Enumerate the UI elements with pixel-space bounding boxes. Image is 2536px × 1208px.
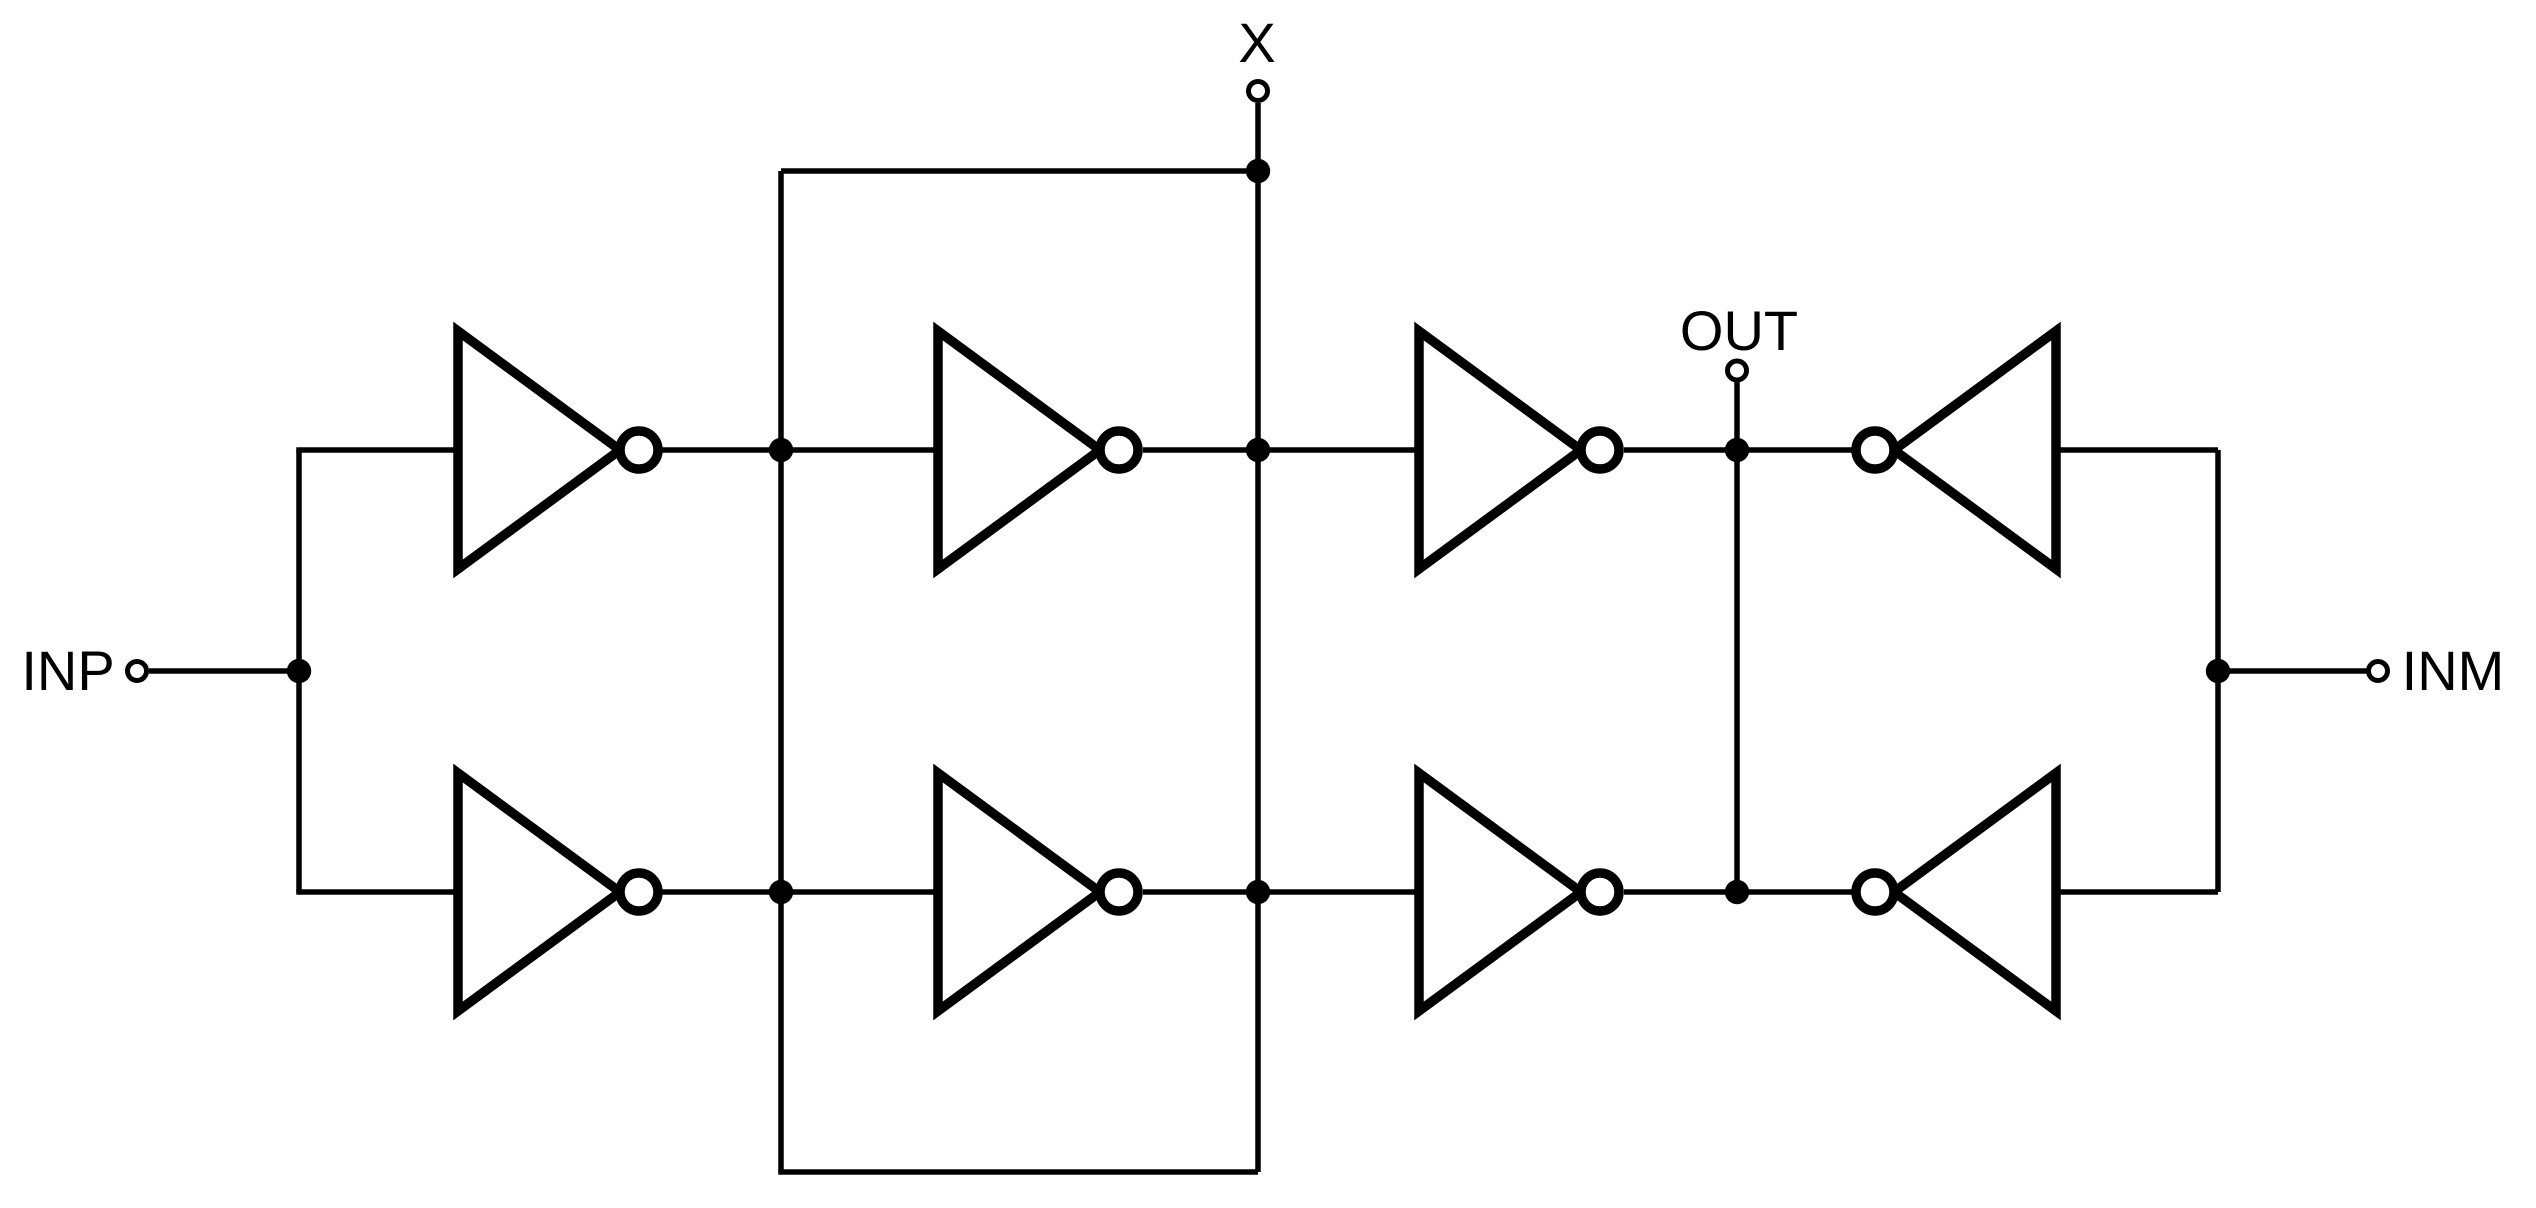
- wire feedback box left vertical: [778, 171, 784, 1172]
- svg-text:OUT: OUT: [1680, 299, 1798, 362]
- inverter U3: [938, 331, 1138, 569]
- wire node X top to inverter U5 input: [1258, 447, 1421, 453]
- wire net X vertical: [1255, 103, 1261, 1172]
- wire node OUT top to U7 bubble: [1737, 447, 1852, 453]
- wire U8 input to right branch: [2054, 889, 2218, 895]
- junction X row top: [1246, 438, 1270, 462]
- terminal INM: [2369, 662, 2388, 681]
- wire U5 output to node OUT top: [1624, 447, 1737, 453]
- inverter U7: [1856, 331, 2056, 569]
- inverter U2: [458, 773, 658, 1011]
- wire U6 output to node OUT bottom: [1624, 889, 1737, 895]
- wire feedback box top horizontal: [781, 168, 1258, 174]
- wire box left bottom to inverter U4 input: [781, 889, 940, 895]
- inverter U4: [938, 773, 1138, 1011]
- wire INP to left branch junction: [149, 668, 299, 674]
- junction OUT row top: [1725, 438, 1749, 462]
- wire U7 input to right branch: [2054, 447, 2218, 453]
- junction X row bottom: [1246, 880, 1270, 904]
- junction X top: [1246, 159, 1270, 183]
- wire right input branch vertical: [2215, 450, 2221, 892]
- wire left input branch vertical: [296, 450, 302, 892]
- inverter U5: [1419, 331, 1619, 569]
- wire left branch top to inverter U1 input: [296, 447, 460, 453]
- wire left branch bottom to inverter U2 input: [296, 889, 460, 895]
- terminal X: [1249, 82, 1268, 101]
- inverter U1: [458, 331, 658, 569]
- inverter U6: [1419, 773, 1619, 1011]
- svg-text:X: X: [1238, 11, 1275, 74]
- junction OUT row bottom: [1725, 880, 1749, 904]
- svg-text:INP: INP: [21, 639, 114, 702]
- wire U2 output to node box left bottom: [661, 889, 781, 895]
- inverter U8: [1856, 773, 2056, 1011]
- wire U1 output to node box left top: [661, 447, 781, 453]
- wire box left top to inverter U3 input: [781, 447, 940, 453]
- svg-text:INM: INM: [2402, 639, 2505, 702]
- wire node X bottom to inverter U6 input: [1258, 889, 1421, 895]
- junction U2 output / box left bottom: [769, 880, 793, 904]
- junction INM branch: [2206, 659, 2230, 683]
- wire net OUT vertical: [1734, 382, 1740, 892]
- terminal OUT: [1728, 361, 1747, 380]
- junction U1 output / box left top: [769, 438, 793, 462]
- terminal INP: [128, 662, 147, 681]
- wire right branch junction to INM terminal: [2218, 668, 2367, 674]
- wire U3 output to node X top: [1143, 447, 1258, 453]
- wire U4 output to node X bottom: [1143, 889, 1258, 895]
- wire node OUT bottom to U8 bubble: [1737, 889, 1852, 895]
- junction INP branch: [287, 659, 311, 683]
- wire feedback box bottom horizontal: [778, 1169, 1258, 1175]
